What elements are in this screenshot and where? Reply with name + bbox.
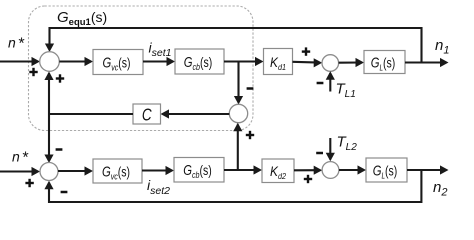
block Kd2 — [262, 159, 294, 183]
summing junction S3 (middle) — [229, 104, 247, 122]
svg-text:n2: n2 — [433, 179, 447, 199]
wire S2 output to Gvc2 — [58, 166, 93, 175]
sign + at S5 left input — [304, 175, 312, 183]
wire Gvc2 to Gcb2 — [142, 166, 174, 175]
disturbance input T_L2 arrow into S5 — [326, 138, 335, 161]
wire from Gcb2 output up into S3 — [233, 123, 242, 170]
block C — [133, 104, 161, 125]
sign - at S2 bottom input — [61, 191, 68, 194]
wire Gcb1 to Kd1 — [224, 57, 264, 66]
summing junction S2 (bottom left) — [40, 163, 58, 181]
sign + at S3 bottom input — [246, 131, 254, 139]
wire S3 output to block C — [161, 109, 230, 118]
block GL1 — [364, 51, 405, 74]
svg-text:GL(s): GL(s) — [373, 162, 398, 181]
svg-text:n1: n1 — [435, 37, 449, 57]
sign - at S3 top input — [247, 87, 254, 90]
wire S4 to GL1 — [339, 58, 364, 67]
wire GL2 output to n2 — [407, 165, 449, 174]
svg-text:GL(s): GL(s) — [371, 54, 396, 73]
sign + at S1 bottom input — [56, 74, 64, 82]
block Gvc2 — [93, 159, 142, 183]
sign + at S4 left input — [302, 47, 310, 55]
wire S1 output to Gvc1 — [59, 57, 93, 66]
sign - at S5 top input — [316, 152, 323, 155]
wire GL1 output to n1 — [405, 58, 449, 67]
wire Gcb2 to Kd2 — [224, 165, 262, 174]
wire tap from Gcb1 output down into S3 — [234, 62, 243, 105]
wire C output to vertical tee — [48, 113, 133, 115]
summing junction S1 (top left) — [40, 52, 60, 72]
wire Kd2 to S5 — [294, 166, 322, 175]
svg-text:iset1: iset1 — [149, 40, 172, 60]
svg-text:TL2: TL2 — [337, 134, 358, 154]
wire Kd1 to S4 — [293, 58, 323, 67]
wire S5 to GL2 — [339, 165, 366, 174]
block Gcb1 — [175, 49, 224, 74]
sign + at S2 left input — [25, 179, 33, 187]
wire vertical from C tee up into S1 and down into S2 — [44, 72, 53, 164]
svg-text:Gequ1(s): Gequ1(s) — [57, 9, 107, 28]
svg-text:n*: n* — [12, 149, 29, 167]
wire bottom feedback from n2 to S2 — [44, 170, 421, 202]
wire Gvc1 to Gcb1 — [143, 57, 175, 66]
sign - at S4 bottom input — [317, 82, 324, 85]
summing junction S4 (top right) — [322, 55, 339, 72]
summing junction S5 (bottom right) — [322, 162, 339, 179]
block Gvc1 — [93, 50, 143, 75]
svg-text:iset2: iset2 — [147, 177, 170, 197]
disturbance input T_L1 arrow into S4 — [326, 71, 335, 91]
sign + at top summing junction S1 left input — [29, 68, 37, 76]
dashed region boundary G_equ1 — [29, 6, 254, 131]
svg-text:C: C — [142, 106, 152, 125]
svg-text:n*: n* — [8, 35, 25, 53]
sign - at S2 top input — [56, 148, 63, 151]
svg-text:TL1: TL1 — [336, 81, 356, 101]
block GL2 — [366, 158, 407, 182]
wire top feedback from n1 to S1 — [45, 28, 422, 62]
wire n* input top — [0, 57, 40, 66]
wire n* input bottom — [0, 167, 40, 176]
block Kd1 — [264, 49, 293, 75]
block Gcb2 — [174, 158, 224, 183]
